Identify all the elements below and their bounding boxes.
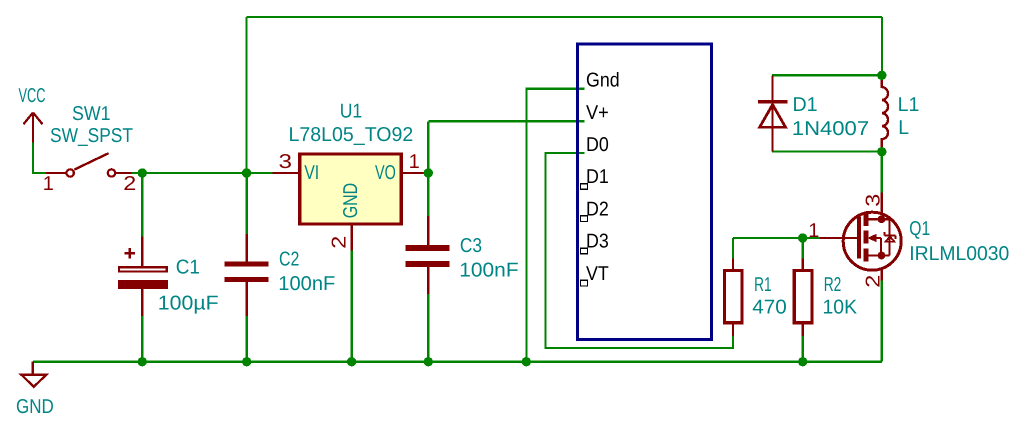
unconnected pin square D2 xyxy=(581,216,588,222)
wire D1/L1 bottom link xyxy=(772,150,882,152)
sheet pin label D3 xyxy=(586,231,609,253)
label VCC xyxy=(19,85,46,107)
svg-text:D3: D3 xyxy=(586,231,609,253)
node junction C2/top rail xyxy=(242,168,251,177)
label U1 xyxy=(340,101,363,123)
wire C1 connections xyxy=(141,173,143,362)
svg-text:1: 1 xyxy=(808,220,819,242)
label SW_SPST xyxy=(50,125,133,147)
pin number 1 of SW1 xyxy=(43,173,54,195)
wire L1 to Q1 drain xyxy=(881,152,883,193)
label 470 xyxy=(752,297,787,319)
wire sheet Gnd to rail xyxy=(526,89,584,362)
svg-text:100nF: 100nF xyxy=(459,260,518,282)
pin name GND (rotated) xyxy=(340,183,362,218)
svg-text:U1: U1 xyxy=(340,101,363,123)
svg-text:Gnd: Gnd xyxy=(586,70,620,92)
pin 3 of U1 (VI) xyxy=(272,172,298,174)
wire switch output to U1 VI xyxy=(132,172,273,174)
pin name VI xyxy=(304,162,319,184)
svg-text:D0: D0 xyxy=(586,134,609,156)
transistor Q1 IRLML0030 xyxy=(820,192,901,280)
svg-text:GND: GND xyxy=(16,396,54,418)
svg-text:3: 3 xyxy=(862,194,884,207)
svg-text:D2: D2 xyxy=(586,198,609,220)
svg-text:D1: D1 xyxy=(586,166,609,188)
svg-text:C3: C3 xyxy=(460,235,482,257)
inductor L1 xyxy=(882,75,888,151)
node rail junction C3 xyxy=(424,357,433,366)
label 100µF xyxy=(158,293,219,315)
wire D1/L1 top link xyxy=(772,74,882,76)
svg-text:2: 2 xyxy=(329,236,351,249)
svg-text:2: 2 xyxy=(123,173,136,195)
svg-text:C1: C1 xyxy=(176,257,200,279)
sheet pin label D2 xyxy=(586,198,609,220)
wire C2 connections xyxy=(245,173,247,362)
svg-text:L78L05_TO92: L78L05_TO92 xyxy=(289,124,414,146)
node rail junction R2 xyxy=(798,357,807,366)
label R2 xyxy=(824,274,842,296)
wire VCC stub xyxy=(33,142,46,173)
svg-text:Q1: Q1 xyxy=(909,218,930,240)
label L1 xyxy=(898,94,920,116)
node rail junction U1 GND xyxy=(347,357,356,366)
ground symbol GND xyxy=(21,362,46,387)
svg-text:L: L xyxy=(898,117,909,139)
pin 2 of U1 (GND) xyxy=(351,226,353,251)
capacitor C1 (electrolytic) xyxy=(118,237,168,316)
node junction top D1/L1 xyxy=(877,71,886,80)
sheet pin label Gnd xyxy=(586,70,620,92)
label C3 xyxy=(460,235,482,257)
svg-text:VI: VI xyxy=(304,162,319,184)
resistor R2 xyxy=(794,259,812,362)
switch SW1 SW_SPST xyxy=(46,153,132,177)
node junction gate R2 xyxy=(798,233,807,242)
wire U1 GND pin to rail xyxy=(351,251,353,362)
node junction VO/C3/V+ xyxy=(424,168,433,177)
wire VO node to sheet V+ xyxy=(428,121,584,173)
svg-text:IRLML0030: IRLML0030 xyxy=(909,243,1009,265)
sheet pin label D0 xyxy=(586,134,609,156)
svg-text:GND: GND xyxy=(340,183,362,218)
unconnected pin square D1 xyxy=(581,184,588,190)
label IRLML0030 xyxy=(909,243,1009,265)
node rail junction C1 xyxy=(138,357,147,366)
svg-text:VCC: VCC xyxy=(19,85,46,107)
wire sheet D0 to R1 xyxy=(546,153,734,348)
node rail junction sheet Gnd xyxy=(522,357,531,366)
label 10K xyxy=(823,297,858,319)
label SW1 xyxy=(72,103,111,125)
hierarchical sheet box xyxy=(577,44,711,340)
capacitor C3 xyxy=(406,216,450,294)
pin number 3 of Q1 (rotated) xyxy=(862,194,884,207)
svg-text:2: 2 xyxy=(862,275,884,288)
wire top rail VCC net xyxy=(247,17,883,173)
node junction switch/C1 xyxy=(138,168,147,177)
svg-text:10K: 10K xyxy=(823,297,858,319)
power flag VCC xyxy=(24,113,43,143)
wire gate net R1/R2 tops xyxy=(733,238,820,259)
label L xyxy=(898,117,909,139)
capacitor C2 xyxy=(225,234,269,316)
label R1 xyxy=(754,274,772,296)
svg-text:VT: VT xyxy=(586,263,609,285)
label GND xyxy=(16,396,54,418)
unconnected pin square VT xyxy=(581,280,588,286)
label C2 xyxy=(279,249,299,271)
svg-text:100nF: 100nF xyxy=(278,273,335,295)
svg-text:3: 3 xyxy=(279,151,293,173)
label L78L05_TO92 xyxy=(289,124,414,146)
diode D1 1N4007 xyxy=(758,75,787,151)
unconnected pin square D3 xyxy=(581,248,588,254)
svg-text:1N4007: 1N4007 xyxy=(792,118,869,140)
label 100nF xyxy=(278,273,335,295)
pin name VO xyxy=(375,162,396,184)
svg-text:SW_SPST: SW_SPST xyxy=(50,125,133,147)
svg-text:100µF: 100µF xyxy=(158,293,219,315)
svg-text:VO: VO xyxy=(375,162,396,184)
svg-text:L1: L1 xyxy=(898,94,920,116)
label C1 xyxy=(176,257,200,279)
wire Q1 source to rail xyxy=(881,281,883,362)
sheet pin label D1 xyxy=(586,166,609,188)
node rail junction C2 xyxy=(242,357,251,366)
sheet pin label V+ xyxy=(586,102,609,124)
pin number 2 of SW1 xyxy=(123,173,136,195)
resistor R1 xyxy=(724,259,742,337)
label 1N4007 xyxy=(792,118,869,140)
svg-text:SW1: SW1 xyxy=(72,103,111,125)
label 100nF xyxy=(459,260,518,282)
svg-text:D1: D1 xyxy=(793,94,818,116)
svg-text:R1: R1 xyxy=(754,274,772,296)
op-amp U1 L78L05_TO92 body xyxy=(300,154,402,224)
pin 1 of U1 (VO) xyxy=(403,172,428,174)
wire R2 bottom to rail xyxy=(802,324,804,361)
svg-text:V+: V+ xyxy=(586,102,609,124)
label D1 xyxy=(793,94,818,116)
label Q1 xyxy=(909,218,930,240)
svg-text:R2: R2 xyxy=(824,274,842,296)
svg-text:470: 470 xyxy=(752,297,787,319)
wire ground rail xyxy=(33,361,882,363)
wire C3 connections xyxy=(427,173,429,362)
node junction bottom D1/L1 xyxy=(877,147,886,156)
pin number 1 of Q1 xyxy=(808,220,819,242)
sheet pin label VT xyxy=(586,263,609,285)
svg-text:1: 1 xyxy=(43,173,54,195)
pin number 3 of U1 xyxy=(279,151,293,173)
pin number 2 of U1 (rotated) xyxy=(329,236,351,249)
svg-text:1: 1 xyxy=(409,151,420,173)
pin number 1 of U1 xyxy=(409,151,420,173)
pin number 2 of Q1 (rotated) xyxy=(862,275,884,288)
svg-text:C2: C2 xyxy=(279,249,299,271)
